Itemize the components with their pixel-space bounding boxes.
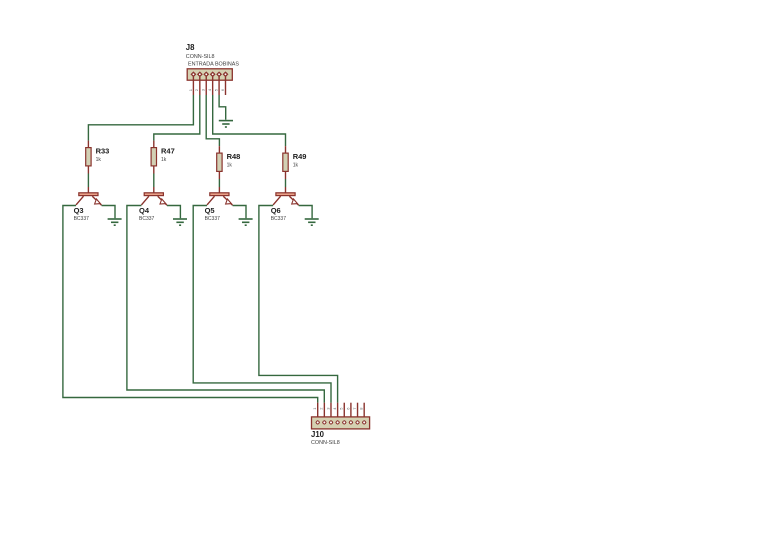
svg-text:BC337: BC337 [205,216,221,222]
connector J8 pin 4 stub [212,77,214,95]
connector J10 pin 3 contact [329,421,333,425]
svg-text:1k: 1k [293,162,299,168]
svg-text:BC337: BC337 [74,216,90,222]
connector J10 pin 2 contact [323,421,327,425]
svg-text:7: 7 [352,407,357,410]
svg-text:R33: R33 [96,146,110,155]
resistor R48 body [217,153,222,171]
wire R49 to transistor base [285,179,287,187]
svg-text:6: 6 [220,88,225,91]
svg-text:BC337: BC337 [139,216,155,222]
transistor Q4 emitter lead [158,196,167,205]
connector J8 pin 5 stub [218,77,220,95]
connector J8 pin 6 stub [225,77,227,95]
svg-text:1: 1 [312,407,317,410]
svg-text:CONN-SIL8: CONN-SIL8 [186,54,215,60]
transistor Q3 base bar [79,193,98,196]
connector J10 pin 5 contact [343,421,347,425]
wire R33 to transistor base [87,174,89,188]
transistor Q5 base stub [218,187,220,193]
transistor Q6 emitter arrow [292,199,298,204]
wire J8 pin5 to ground [219,95,226,120]
svg-text:1: 1 [188,88,193,91]
transistor Q4 base bar [144,193,163,196]
connector J10 pin 7 stub [357,403,359,421]
connector J8 pin 2 contact [198,72,203,77]
svg-text:1k: 1k [96,157,102,163]
svg-text:5: 5 [339,407,344,410]
svg-text:BC337: BC337 [271,216,287,222]
svg-text:3: 3 [325,407,330,410]
connector J8 pin 3 contact [204,72,209,77]
svg-text:Q4: Q4 [139,206,150,215]
resistor R48 top pin stub [218,146,220,152]
wire J8 pin3 to R48 [206,95,219,146]
transistor Q6 base bar [276,193,295,196]
svg-text:Q6: Q6 [271,206,281,215]
connector J8 body [187,69,232,80]
connector J8 pin 4 contact [210,72,215,77]
svg-text:Q5: Q5 [205,206,215,215]
svg-text:J8: J8 [186,43,195,52]
svg-text:6: 6 [345,407,350,410]
ground under Q5 [239,219,253,225]
transistor Q3 base stub [87,187,89,193]
svg-text:2: 2 [319,407,324,410]
wire Q5 collector to J10 [193,206,331,403]
wire J8 pin1 to R33 [88,95,193,141]
resistor R47 body [151,148,156,166]
svg-text:1k: 1k [161,157,167,163]
wire Q3 collector to J10 [63,206,318,403]
resistor R49 bottom pin stub [285,172,287,179]
ground under Q4 [173,219,187,225]
transistor Q4 collector lead [141,196,149,205]
transistor Q5 collector lead [207,196,215,205]
wire J8 pin4 to R49 [213,95,286,146]
connector J10 pin 3 stub [330,403,332,421]
connector J10 pin 2 stub [323,403,325,421]
wire Q4 collector to J10 [127,206,324,403]
resistor R49 body [283,153,288,171]
wire R47 to transistor base [153,174,155,188]
wire Q5 emitter to ground [233,206,246,219]
connector J10 pin 6 contact [349,421,353,425]
svg-text:ENTRADA BOBINAS: ENTRADA BOBINAS [188,62,239,68]
transistor Q5 emitter arrow [226,199,232,204]
connector J10 pin 8 stub [363,403,365,421]
transistor Q5 emitter lead [223,196,232,205]
resistor R48 bottom pin stub [218,172,220,179]
wire Q4 emitter to ground [167,206,180,219]
connector J10 pin 7 contact [356,421,360,425]
svg-text:Q3: Q3 [74,206,84,215]
ground under Q3 [108,219,122,225]
svg-text:R48: R48 [227,152,241,161]
transistor Q3 collector lead [76,196,84,205]
transistor Q4 base stub [153,187,155,193]
transistor Q3 emitter lead [92,196,101,205]
wire J8 pin2 to R47 [154,95,200,141]
connector J8 pin 5 contact [217,72,222,77]
resistor R47 bottom pin stub [153,167,155,174]
wire Q6 collector to J10 [259,206,338,403]
svg-text:J10: J10 [311,430,325,439]
connector J8 pin 2 stub [199,77,201,95]
svg-text:R47: R47 [161,146,175,155]
transistor Q6 base stub [285,187,287,193]
svg-text:2: 2 [194,88,199,91]
connector J10 pin 4 stub [337,403,339,421]
connector J10 pin 1 stub [317,403,319,421]
transistor Q3 emitter arrow [95,199,101,204]
connector J10 pin 6 stub [350,403,352,421]
connector J8 pin 6 contact [223,72,228,77]
connector J10 pin 5 stub [343,403,345,421]
svg-text:1k: 1k [227,162,233,168]
connector J8 pin 1 contact [191,72,196,77]
transistor Q6 collector lead [273,196,281,205]
svg-text:R49: R49 [293,152,307,161]
wire R48 to transistor base [218,179,220,187]
connector J10 pin 8 contact [362,421,366,425]
transistor Q4 emitter arrow [160,199,166,204]
resistor R33 bottom pin stub [87,167,89,174]
wire Q3 emitter to ground [102,206,115,219]
ground under J8 [219,121,233,127]
svg-text:4: 4 [332,407,337,410]
resistor R33 body [86,148,91,166]
transistor Q6 emitter lead [289,196,298,205]
resistor R47 top pin stub [153,141,155,147]
resistor R49 top pin stub [285,146,287,152]
svg-text:5: 5 [213,88,218,91]
connector J10 body [312,417,370,429]
connector J8 pin 1 stub [192,77,194,95]
svg-text:3: 3 [201,88,206,91]
resistor R33 top pin stub [87,141,89,147]
wire Q6 emitter to ground [299,206,312,219]
svg-text:CONN-SIL8: CONN-SIL8 [311,440,340,446]
svg-text:4: 4 [207,88,212,91]
connector J8 pin 3 stub [205,77,207,95]
connector J10 pin 1 contact [316,421,320,425]
svg-text:8: 8 [359,407,364,410]
ground under Q6 [305,219,319,225]
transistor Q5 base bar [210,193,229,196]
connector J10 pin 4 contact [336,421,340,425]
